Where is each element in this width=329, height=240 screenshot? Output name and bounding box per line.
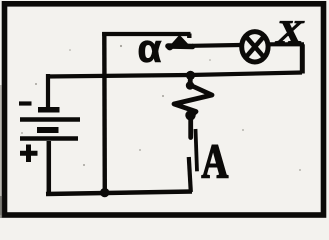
wire switch to lamp (192, 43, 240, 48)
lamp X (bulb) (242, 32, 268, 62)
battery B1 (20, 110, 80, 139)
switch a (key K1) (166, 34, 192, 51)
wire bottom horizontal (46, 192, 192, 195)
battery plate 2 (long) (20, 117, 80, 122)
wire middle horizontal (46, 73, 302, 77)
label A (202, 145, 228, 177)
wire battery top stub (46, 74, 50, 108)
wire lamp to right corner (270, 42, 304, 46)
label a (139, 41, 161, 62)
wire top horizontal (102, 32, 190, 36)
switch fixed contact nub (187, 34, 191, 39)
wire right of lamp loop (vertical) (300, 44, 305, 73)
switch base left blob (166, 44, 173, 51)
switch lever triangle (171, 35, 188, 44)
ammeter A (gap contact right line) (196, 129, 198, 171)
label X (275, 21, 304, 42)
resistor R (zigzag) (174, 76, 212, 138)
node junction bottom (100, 188, 109, 197)
label minus (battery negative) (19, 101, 32, 105)
battery plate 1 (short) (38, 107, 60, 113)
battery plate 3 (short) (37, 127, 59, 133)
(decorative scan noise below, not a schematic element) (0, 85, 2, 215)
wire ammeter to bottom corner (189, 157, 191, 192)
switch base bar (168, 43, 193, 49)
wire long vertical (102, 32, 107, 193)
wire battery bottom stub (47, 141, 52, 194)
label plus (battery positive) (20, 145, 38, 163)
battery plate 4 (long) (20, 136, 78, 141)
node junction at resistor top (186, 71, 195, 80)
